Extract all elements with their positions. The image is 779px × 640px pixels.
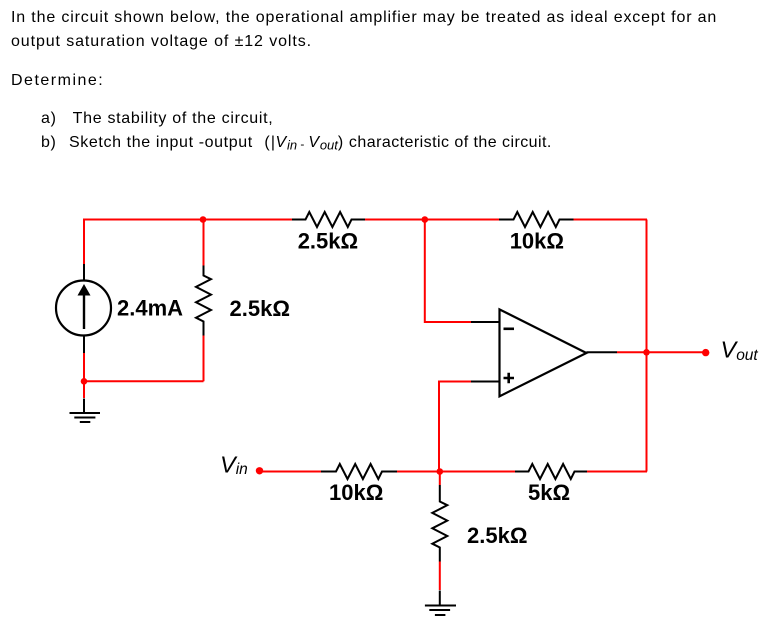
wire R1 top: [203, 219, 205, 266]
wire op-amp output to Vout: [617, 351, 706, 353]
op-amp plus sign: [504, 373, 515, 383]
svg-text:Vin: Vin: [220, 451, 248, 478]
item a: [41, 110, 273, 128]
ground left lead: [83, 399, 85, 414]
terminal dot Vout: [702, 349, 709, 356]
current source arrow head: [78, 284, 91, 296]
wire R1 bottom: [203, 336, 205, 382]
svg-text:2.4mA: 2.4mA: [117, 296, 183, 321]
ground bottom lead: [439, 591, 441, 606]
wire feedback vertical to inverting input: [425, 220, 471, 323]
junction dot top node A: [200, 216, 207, 223]
junction dot bottom-left ground node: [81, 378, 88, 385]
junction dot bottom node C: [437, 468, 444, 475]
ground bottom bars: [425, 606, 456, 616]
wire bottom node to R6: [439, 472, 441, 486]
item b: [41, 134, 552, 153]
current source arrow shaft: [83, 293, 85, 329]
svg-text:2.5kΩ: 2.5kΩ: [298, 228, 358, 253]
wire right vertical: [646, 220, 648, 472]
op-amp U1 triangle: [500, 309, 587, 396]
ground left bars: [70, 413, 101, 422]
wire current source bottom to ground node: [83, 353, 85, 398]
resistor R6 2.5k bottom vertical: [432, 485, 447, 562]
svg-text:5kΩ: 5kΩ: [528, 480, 570, 505]
current source I1 circle: [56, 281, 111, 336]
wire Vin to R4: [260, 471, 322, 473]
op-amp output lead: [586, 351, 617, 353]
op-amp minus input lead: [471, 321, 500, 323]
current source top lead: [83, 264, 85, 281]
wire R5 to right vertical: [587, 471, 647, 473]
problem statement line 1: [11, 9, 717, 27]
svg-text:2.5kΩ: 2.5kΩ: [467, 523, 527, 548]
resistor R2 2.5k top horizontal: [292, 212, 365, 227]
svg-text:Vout: Vout: [721, 337, 759, 364]
wire R6 bottom to ground: [439, 562, 441, 591]
resistor R3 10k top horizontal: [499, 212, 574, 227]
junction dot top node B: [422, 216, 429, 223]
junction dot output node: [643, 349, 650, 356]
wire bottom-left horizontal: [84, 380, 204, 382]
op-amp plus input lead: [471, 381, 500, 383]
wire left vertical from top to current source: [83, 219, 85, 265]
wire top horizontal left segment: [84, 219, 292, 221]
current source bottom lead: [83, 335, 85, 353]
op-amp minus sign: [504, 327, 515, 330]
wire top horizontal middle segment: [365, 219, 499, 221]
resistor R4 10k bottom horizontal: [321, 464, 397, 479]
resistor R1 2.5k vertical (leads+zigzag): [196, 266, 211, 336]
svg-text:10kΩ: 10kΩ: [510, 228, 564, 253]
resistor R5 5k bottom horizontal: [515, 464, 587, 479]
terminal dot Vin: [256, 467, 263, 474]
problem statement line 2: [11, 33, 312, 51]
Determine heading: [11, 72, 104, 90]
svg-text:10kΩ: 10kΩ: [329, 480, 383, 505]
wire top horizontal right segment: [574, 219, 648, 221]
wire noninverting input to bottom node: [439, 382, 471, 472]
wire R4 to R5: [397, 471, 515, 473]
svg-text:2.5kΩ: 2.5kΩ: [230, 296, 290, 321]
